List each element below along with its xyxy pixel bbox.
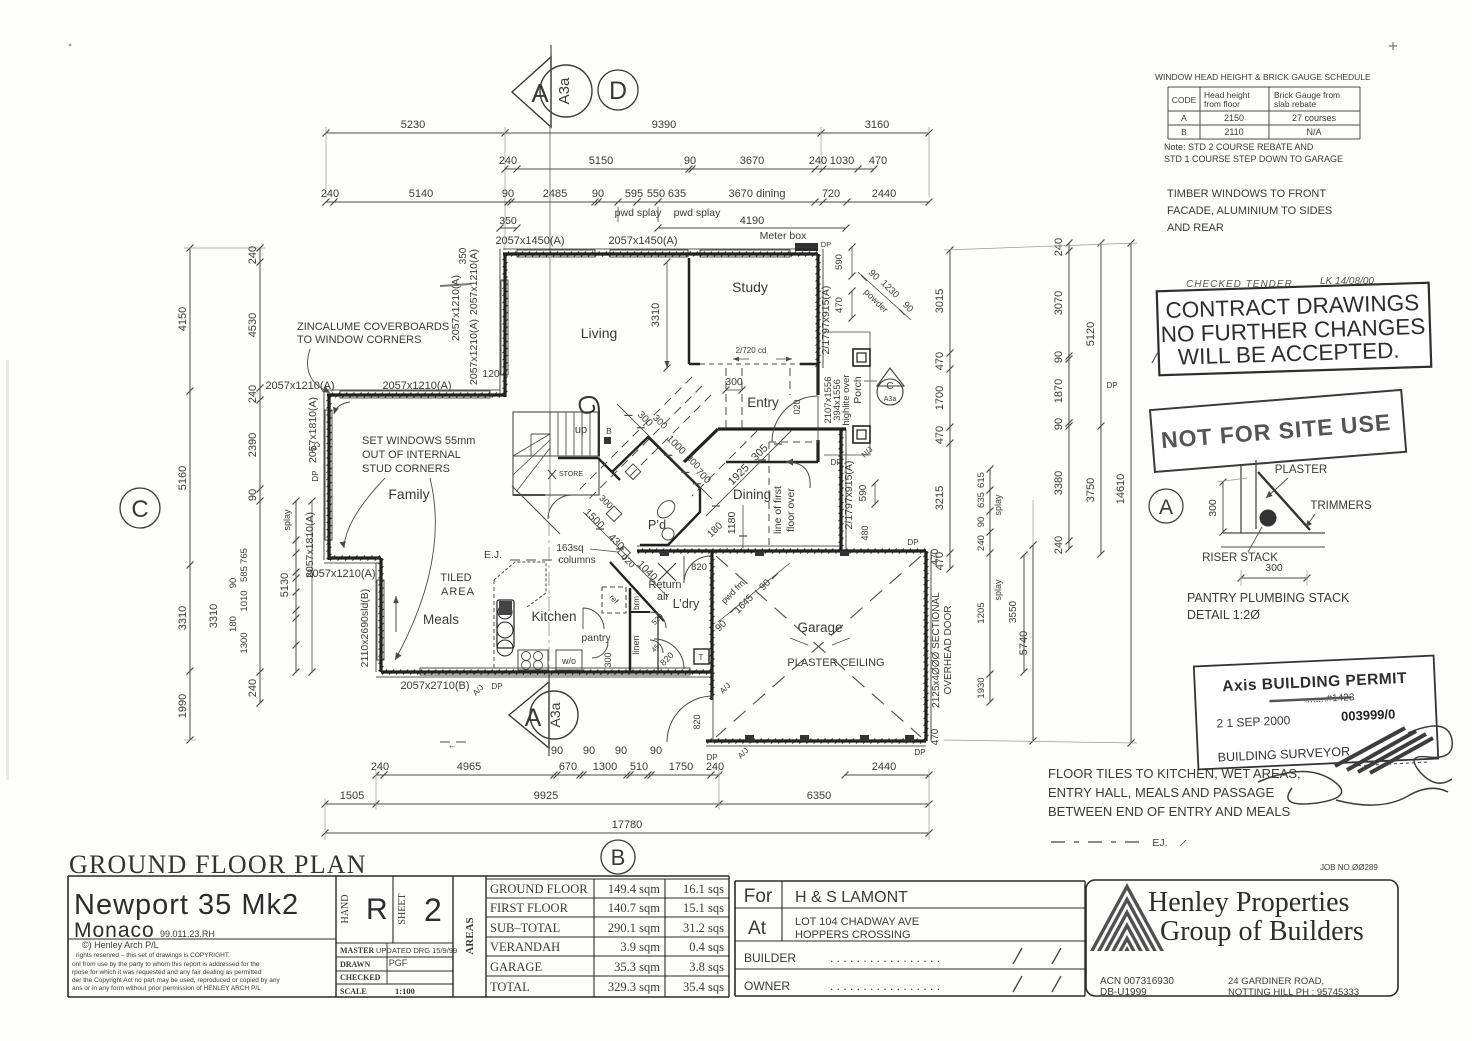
master/drawn/checked/scale xyxy=(336,956,453,958)
dim chain right splay xyxy=(976,466,994,706)
svg-text:1700: 1700 xyxy=(934,386,946,410)
svg-text:AND REAR: AND REAR xyxy=(1167,222,1224,234)
schedule table xyxy=(1168,87,1360,139)
not for site use stamp xyxy=(1150,390,1406,472)
hall dashed diagonals xyxy=(577,377,692,492)
svg-text:Living: Living xyxy=(581,325,618,341)
axis building permit stamp xyxy=(1194,656,1438,770)
hand/sheet cells xyxy=(336,942,453,944)
svg-text:240: 240 xyxy=(321,188,339,200)
dim chain top third xyxy=(321,188,933,206)
svg-text:585: 585 xyxy=(239,566,250,582)
grid bubble C xyxy=(120,488,160,528)
svg-text:A3a: A3a xyxy=(547,702,563,727)
svg-text:5120: 5120 xyxy=(1085,322,1097,346)
return air grille X xyxy=(658,563,676,581)
svg-text:5140: 5140 xyxy=(409,188,433,200)
svg-text:3310: 3310 xyxy=(177,606,189,630)
svg-text:16.1 sqs: 16.1 sqs xyxy=(683,882,724,896)
svg-text:180: 180 xyxy=(228,616,239,632)
svg-text:line of first: line of first xyxy=(772,486,784,534)
svg-text:240: 240 xyxy=(499,155,517,167)
svg-text:90: 90 xyxy=(228,578,239,589)
svg-text:470: 470 xyxy=(930,548,941,565)
garage door arc xyxy=(667,696,713,742)
svg-text:1180: 1180 xyxy=(726,512,738,535)
svg-text:4150: 4150 xyxy=(177,307,189,331)
svg-text:615: 615 xyxy=(976,472,987,488)
wall study bottom a xyxy=(689,363,700,366)
wall right study xyxy=(816,254,821,368)
svg-text:240: 240 xyxy=(371,761,389,773)
svg-text:3670 dining: 3670 dining xyxy=(729,188,786,200)
svg-text:PANTRY PLUMBING STACK: PANTRY PLUMBING STACK xyxy=(1187,591,1350,605)
svg-text:45: 45 xyxy=(651,644,662,655)
svg-text:A: A xyxy=(525,704,542,732)
svg-text:35.3 sqm: 35.3 sqm xyxy=(614,960,660,974)
svg-text:470: 470 xyxy=(834,297,845,313)
svg-text:R: R xyxy=(366,893,388,926)
svg-text:3750: 3750 xyxy=(1085,478,1097,502)
svg-text:2440: 2440 xyxy=(872,188,896,200)
svg-text:3.9 sqm: 3.9 sqm xyxy=(620,940,660,954)
svg-text:595: 595 xyxy=(625,188,643,200)
powder room walls xyxy=(606,437,700,545)
svg-text:H & S LAMONT: H & S LAMONT xyxy=(795,889,908,906)
svg-text:31.2 sqs: 31.2 sqs xyxy=(683,921,724,935)
wall entry bottom xyxy=(726,461,818,464)
svg-text:PGF: PGF xyxy=(389,958,408,968)
svg-text:300: 300 xyxy=(603,652,613,667)
svg-text:550: 550 xyxy=(647,188,665,200)
svg-text:3160: 3160 xyxy=(865,119,889,131)
wall meals left xyxy=(379,558,384,672)
kitchen bench xyxy=(494,562,582,670)
svg-text:A: A xyxy=(531,78,549,108)
wall dining diag xyxy=(684,429,718,462)
svg-text:2057x1210(A): 2057x1210(A) xyxy=(468,319,480,385)
svg-text:300: 300 xyxy=(1207,499,1219,517)
detail marker A xyxy=(1149,489,1183,523)
svg-text:2440: 2440 xyxy=(872,761,896,773)
svg-text:5150: 5150 xyxy=(589,155,613,167)
svg-text:Meter box: Meter box xyxy=(760,230,807,242)
svg-text:A/J: A/J xyxy=(736,746,751,761)
svg-text:2485: 2485 xyxy=(543,188,567,200)
svg-text:DRAWN: DRAWN xyxy=(340,960,370,969)
svg-text:90: 90 xyxy=(1053,351,1065,363)
svg-text:90: 90 xyxy=(976,517,987,528)
svg-text:. . . . . . . . . . . . . . .: . . . . . . . . . . . . . . . . . xyxy=(830,979,940,993)
svg-text:UPDATED DRG 15/9/99: UPDATED DRG 15/9/99 xyxy=(376,946,457,955)
svg-text:Group of Builders: Group of Builders xyxy=(1160,916,1364,947)
svg-text:510: 510 xyxy=(630,761,648,773)
stairs xyxy=(513,397,612,495)
svg-text:Monaco: Monaco xyxy=(74,919,155,942)
svg-text:3310: 3310 xyxy=(650,303,662,327)
wall bottom xyxy=(381,670,712,675)
svg-text:14610: 14610 xyxy=(1115,474,1127,505)
svg-text:240: 240 xyxy=(706,761,724,773)
svg-text:1300: 1300 xyxy=(593,761,617,773)
svg-text:SHEET: SHEET xyxy=(397,893,408,924)
svg-text:ref: ref xyxy=(607,593,621,607)
wall garage top xyxy=(637,549,926,554)
laundry fixtures xyxy=(694,649,709,664)
svg-text:27 courses: 27 courses xyxy=(1292,113,1337,123)
svg-text:240: 240 xyxy=(1053,536,1065,554)
svg-text:90: 90 xyxy=(592,188,604,200)
svg-text:470: 470 xyxy=(934,426,946,444)
window marks family xyxy=(340,391,490,398)
svg-text:1:100: 1:100 xyxy=(395,986,415,996)
svg-text:520: 520 xyxy=(650,612,665,627)
svg-text:Study: Study xyxy=(732,279,768,295)
svg-text:240: 240 xyxy=(247,246,259,264)
svg-text:1205: 1205 xyxy=(976,602,987,623)
svg-text:020: 020 xyxy=(792,399,802,414)
wall living study xyxy=(688,258,691,364)
svg-text:1505: 1505 xyxy=(340,790,364,802)
svg-text:GROUND FLOOR: GROUND FLOOR xyxy=(490,882,588,896)
svg-text:329.3 sqm: 329.3 sqm xyxy=(608,980,660,994)
for/at block xyxy=(735,881,1085,996)
detail dim 300 horizontal xyxy=(1241,577,1307,579)
svg-text:T: T xyxy=(699,653,704,662)
svg-text:Dining: Dining xyxy=(733,487,771,502)
svg-text:3550: 3550 xyxy=(1008,600,1019,623)
svg-text:24 GARDINER ROAD,: 24 GARDINER ROAD, xyxy=(1228,976,1324,987)
svg-text:90: 90 xyxy=(650,745,662,757)
svg-text:4965: 4965 xyxy=(457,761,481,773)
fridge ref dashed box xyxy=(602,587,626,613)
entry door arc xyxy=(772,396,818,442)
porch column 2 xyxy=(853,426,870,443)
svg-text:N/J: N/J xyxy=(860,445,875,460)
svg-text:140.7 sqm: 140.7 sqm xyxy=(608,901,660,915)
svg-text:2057x2710(B): 2057x2710(B) xyxy=(400,680,469,692)
svg-text:90: 90 xyxy=(684,155,696,167)
svg-text:A3a: A3a xyxy=(556,77,573,104)
svg-text:2125x4ØØØ SECTIONAL: 2125x4ØØØ SECTIONAL xyxy=(931,592,942,708)
svg-text:w/o: w/o xyxy=(561,656,576,666)
svg-text:1750: 1750 xyxy=(669,761,693,773)
dim 4190 xyxy=(655,215,850,232)
svg-text:2057x1210(A): 2057x1210(A) xyxy=(450,275,462,341)
grid bubble B xyxy=(601,840,635,874)
dim 17780 xyxy=(322,819,933,837)
wall garage right xyxy=(924,551,929,741)
svg-text:DP: DP xyxy=(821,240,831,249)
svg-text:2390: 2390 xyxy=(247,433,259,457)
svg-text:ACN 007316930: ACN 007316930 xyxy=(1100,976,1174,987)
EJ legend xyxy=(1051,841,1140,843)
svg-text:DP: DP xyxy=(706,753,717,762)
svg-text:SET WINDOWS 55mm: SET WINDOWS 55mm xyxy=(362,435,475,447)
svg-text:JOB NO.ØØ289: JOB NO.ØØ289 xyxy=(1320,863,1378,872)
family/hall diagonal xyxy=(512,486,560,534)
svg-text:highlite over: highlite over xyxy=(841,374,852,425)
dim chain left splay xyxy=(282,498,300,676)
svg-text:305: 305 xyxy=(749,442,770,463)
section marker A/A3a bottom xyxy=(509,674,578,756)
svg-text:TOTAL: TOTAL xyxy=(490,980,530,994)
svg-text:99.011.23.RH: 99.011.23.RH xyxy=(160,929,215,939)
line of first floor over xyxy=(768,442,770,548)
dim 14610 xyxy=(1115,240,1135,747)
svg-text:B: B xyxy=(1181,127,1187,137)
svg-text:columns: columns xyxy=(558,555,595,566)
svg-text:820: 820 xyxy=(692,714,702,729)
svg-text:0.4 sqs: 0.4 sqs xyxy=(689,940,724,954)
svg-text:90: 90 xyxy=(866,268,881,283)
3310 internal dim xyxy=(666,262,668,368)
svg-text:1030: 1030 xyxy=(830,155,854,167)
svg-text:15.1 sqs: 15.1 sqs xyxy=(683,901,724,915)
svg-text:For: For xyxy=(744,886,773,907)
svg-text:1870: 1870 xyxy=(1053,379,1065,403)
svg-text:240: 240 xyxy=(247,679,259,697)
garage dashed X xyxy=(716,556,921,737)
diag dim line hall xyxy=(617,404,712,499)
svg-text:470: 470 xyxy=(869,155,887,167)
svg-text:1500: 1500 xyxy=(582,506,607,531)
svg-text:ZINCALUME COVERBOARDS: ZINCALUME COVERBOARDS xyxy=(297,321,449,333)
dim 5740 xyxy=(1018,542,1037,745)
svg-text:onl from use by the party to w: onl from use by the party to whom this r… xyxy=(72,961,260,968)
family door arc xyxy=(548,495,572,519)
svg-text:635: 635 xyxy=(668,188,686,200)
svg-text:from floor: from floor xyxy=(1204,99,1240,109)
svg-text:DP: DP xyxy=(907,538,918,547)
wall top xyxy=(503,252,818,257)
svg-text:5160: 5160 xyxy=(177,466,189,490)
svg-text:DP: DP xyxy=(830,458,841,467)
svg-text:765: 765 xyxy=(239,548,250,564)
svg-text:AREAS: AREAS xyxy=(464,917,476,954)
dim chain top overall xyxy=(323,119,933,137)
wall dining right xyxy=(839,429,844,551)
svg-text:Garage: Garage xyxy=(797,620,842,635)
pantry detail drawing xyxy=(1202,460,1372,586)
svg-text:TIMBER WINDOWS TO FRONT: TIMBER WINDOWS TO FRONT xyxy=(1167,188,1326,200)
wall dining top xyxy=(718,427,846,430)
svg-text:350: 350 xyxy=(499,215,517,227)
svg-text:A: A xyxy=(1159,496,1173,519)
svg-text:480: 480 xyxy=(860,525,870,540)
svg-text:ENTRY HALL, MEALS AND PASS: ENTRY HALL, MEALS AND PASSAGE xyxy=(1048,785,1274,800)
svg-text:590: 590 xyxy=(834,254,845,270)
wall family top xyxy=(327,393,505,398)
section line A3a xyxy=(549,127,551,252)
svg-text:TRIMMERS: TRIMMERS xyxy=(1310,500,1372,512)
svg-text:470: 470 xyxy=(930,728,941,745)
svg-text:2: 2 xyxy=(424,892,442,928)
title block outer xyxy=(68,876,729,997)
svg-text:rights reserved – this set o: rights reserved – this set of drawings i… xyxy=(76,952,230,959)
svg-text:003999/0: 003999/0 xyxy=(1341,706,1396,723)
x xyxy=(658,609,712,611)
svg-text:635: 635 xyxy=(976,492,987,508)
areas table xyxy=(486,879,729,997)
svg-text:3.8 sqs: 3.8 sqs xyxy=(689,960,724,974)
svg-text:A/J: A/J xyxy=(471,683,486,698)
svg-text:17780: 17780 xyxy=(612,819,643,831)
section marker A/A3a top xyxy=(512,45,592,127)
store diag wall xyxy=(598,458,620,480)
svg-text:300: 300 xyxy=(650,413,669,432)
svg-text:B: B xyxy=(606,426,612,436)
svg-text:VERANDAH: VERANDAH xyxy=(490,940,560,954)
wall return air diag xyxy=(610,562,664,621)
svg-text:Porch: Porch xyxy=(852,376,864,404)
svg-text:FIRST FLOOR: FIRST FLOOR xyxy=(490,901,569,915)
detail dim 300 vertical xyxy=(1222,482,1224,532)
wall family bottom xyxy=(329,556,381,561)
svg-text:2057x1450(A): 2057x1450(A) xyxy=(495,235,564,247)
svg-text:1010: 1010 xyxy=(239,590,250,611)
svg-text:Note: STD 2 COURSE REBATE: Note: STD 2 COURSE REBATE AND xyxy=(1164,142,1314,152)
dim 350 xyxy=(497,215,521,232)
dim 1180 xyxy=(742,505,744,548)
window marks left living wall xyxy=(501,280,508,375)
svg-text:300: 300 xyxy=(725,376,743,388)
svg-text:350: 350 xyxy=(458,247,469,264)
pantry door arcs xyxy=(583,608,604,629)
svg-text:120: 120 xyxy=(482,368,500,380)
svg-text:240: 240 xyxy=(1053,238,1065,256)
svg-text:1230: 1230 xyxy=(878,278,901,301)
svg-text:C: C xyxy=(131,496,148,523)
svg-text:rpose for which it was request: rpose for which it was requested and any… xyxy=(72,969,262,976)
svg-text:pantry: pantry xyxy=(581,632,611,644)
svg-text:9925: 9925 xyxy=(534,790,558,802)
svg-text:←: ← xyxy=(448,740,457,750)
svg-text:Meals: Meals xyxy=(423,612,459,627)
wall entry right top xyxy=(816,368,819,395)
svg-text:SCALE: SCALE xyxy=(340,987,367,996)
svg-text:At: At xyxy=(748,918,767,939)
svg-text:Entry: Entry xyxy=(747,395,779,410)
porch slab xyxy=(824,332,870,455)
detail diagonal plaster xyxy=(1258,472,1310,530)
garage wall brick marks xyxy=(745,735,754,741)
svg-text:720: 720 xyxy=(822,188,840,200)
svg-text:C: C xyxy=(886,381,893,392)
svg-text:3310: 3310 xyxy=(208,604,220,628)
svg-text:4190: 4190 xyxy=(740,215,764,227)
dim chain top second xyxy=(499,155,887,173)
svg-text:2/1797x915(A): 2/1797x915(A) xyxy=(820,286,832,355)
svg-text:DP: DP xyxy=(914,748,925,757)
window marks top wall xyxy=(517,250,595,257)
svg-text:. . . . . . . . . . . . . . .: . . . . . . . . . . . . . . . . . xyxy=(830,951,940,965)
svg-text:240: 240 xyxy=(809,155,827,167)
wall study bottom b xyxy=(800,363,818,366)
dim 2440 xyxy=(842,761,933,779)
entry 300 dim xyxy=(726,389,742,391)
svg-text:670: 670 xyxy=(559,761,577,773)
svg-text:Henley Properties: Henley Properties xyxy=(1148,887,1349,918)
svg-text:590: 590 xyxy=(858,484,869,501)
wall linen xyxy=(630,611,650,613)
svg-text:EJ.: EJ. xyxy=(1152,837,1167,849)
svg-text:DP: DP xyxy=(491,682,502,691)
svg-text:1930: 1930 xyxy=(976,677,987,698)
svg-text:E.J.: E.J. xyxy=(484,549,502,561)
svg-text:PLASTER CEILING: PLASTER CEILING xyxy=(787,657,884,669)
svg-text:5230: 5230 xyxy=(401,119,425,131)
svg-text:OWNER: OWNER xyxy=(744,979,790,993)
svg-text:A/J: A/J xyxy=(718,681,733,696)
svg-text:90: 90 xyxy=(551,745,563,757)
svg-text:2057x1450(A): 2057x1450(A) xyxy=(608,235,677,247)
svg-text:TO WINDOW CORNERS: TO WINDOW CORNERS xyxy=(297,334,421,346)
svg-text:Newport 35 Mk2: Newport 35 Mk2 xyxy=(74,889,299,921)
svg-text:OUT OF INTERNAL: OUT OF INTERNAL xyxy=(362,449,461,461)
svg-text:PLASTER: PLASTER xyxy=(1275,464,1327,476)
svg-text:TILED: TILED xyxy=(440,572,471,584)
store under stairs xyxy=(513,458,620,495)
svg-text:brm: brm xyxy=(632,596,641,610)
dim chain right mid xyxy=(1053,238,1073,554)
dim chain left overall xyxy=(177,245,194,744)
svg-text:90: 90 xyxy=(247,489,259,501)
svg-text:der the Copyright Act no part: der the Copyright Act no part may be use… xyxy=(72,977,281,984)
store top wall xyxy=(558,457,598,459)
svg-text:1925: 1925 xyxy=(726,462,752,488)
svg-text:90: 90 xyxy=(757,577,773,593)
svg-text:2/720 cd: 2/720 cd xyxy=(736,346,767,355)
svg-text:MASTER: MASTER xyxy=(340,946,374,955)
powder window dim diag xyxy=(858,272,911,320)
dim chain left second xyxy=(247,245,264,707)
svg-text:splay: splay xyxy=(282,509,292,531)
svg-text:pwd splay: pwd splay xyxy=(674,207,721,219)
svg-text:slab rebate: slab rebate xyxy=(1274,99,1316,109)
svg-text:2057x1210(A): 2057x1210(A) xyxy=(468,249,480,315)
svg-text:2150: 2150 xyxy=(1224,113,1244,123)
svg-text:3380: 3380 xyxy=(1053,471,1065,495)
svg-text:GARAGE: GARAGE xyxy=(490,960,542,974)
diag dim 1925/305 xyxy=(706,430,792,516)
svg-text:1300: 1300 xyxy=(239,632,250,653)
wall garage left xyxy=(710,551,715,700)
dim chain right inner xyxy=(934,247,954,573)
svg-text:1990: 1990 xyxy=(177,694,189,718)
dim chain right outer2 xyxy=(1085,240,1105,558)
svg-text:90: 90 xyxy=(615,745,627,757)
svg-text:pwd splay: pwd splay xyxy=(615,207,662,219)
svg-text:1000: 1000 xyxy=(664,433,688,457)
svg-text:4530: 4530 xyxy=(247,313,259,337)
svg-text:N/A: N/A xyxy=(1306,127,1321,137)
door arcs laundry area xyxy=(650,612,666,628)
wall left living xyxy=(503,254,508,397)
svg-text:3070: 3070 xyxy=(1053,291,1065,315)
svg-text:STORE: STORE xyxy=(559,471,583,478)
svg-text:BETWEEN END OF ENTRY AND: BETWEEN END OF ENTRY AND MEALS xyxy=(1048,804,1291,819)
scan specks xyxy=(69,44,72,47)
svg-text:DB-U1999: DB-U1999 xyxy=(1100,987,1147,998)
svg-text:2057x1210(A): 2057x1210(A) xyxy=(306,568,375,580)
leader 163sq columns xyxy=(590,549,618,552)
wall garage bottom xyxy=(706,739,926,744)
svg-text:90: 90 xyxy=(583,745,595,757)
svg-text:2/1797x915(A): 2/1797x915(A) xyxy=(843,461,855,530)
svg-text:SUB–TOTAL: SUB–TOTAL xyxy=(490,921,560,935)
svg-text:DP: DP xyxy=(1106,381,1117,390)
